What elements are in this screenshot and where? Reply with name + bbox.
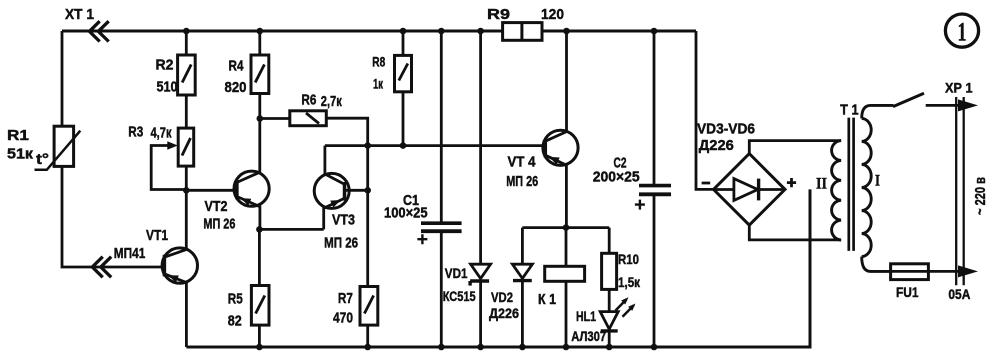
svg-text:200×25: 200×25 — [593, 169, 640, 186]
svg-text:2,7к: 2,7к — [321, 93, 342, 110]
svg-text:МП 26: МП 26 — [324, 235, 358, 252]
svg-text:05А: 05А — [948, 286, 970, 302]
svg-text:VT 4: VT 4 — [508, 154, 537, 171]
svg-text:510: 510 — [157, 79, 178, 96]
svg-text:ХР 1: ХР 1 — [945, 80, 973, 96]
svg-text:VT3: VT3 — [332, 212, 355, 229]
svg-text:R2: R2 — [156, 57, 174, 74]
svg-text:Д226: Д226 — [699, 137, 734, 154]
svg-text:VD3-VD6: VD3-VD6 — [697, 121, 755, 138]
svg-text:МП 26: МП 26 — [203, 216, 235, 233]
svg-text:VD1: VD1 — [445, 265, 468, 281]
svg-text:ХТ 1: ХТ 1 — [65, 6, 94, 23]
svg-text:Д226: Д226 — [489, 305, 519, 321]
svg-text:51к: 51к — [7, 146, 34, 163]
svg-text:R9: R9 — [487, 6, 510, 23]
svg-text:R4: R4 — [229, 58, 245, 75]
svg-text:~ 220 в: ~ 220 в — [972, 177, 989, 215]
svg-text:R8: R8 — [372, 54, 385, 70]
svg-text:VT1: VT1 — [146, 227, 168, 244]
svg-text:R10: R10 — [618, 251, 639, 267]
svg-text:МП41: МП41 — [114, 245, 146, 262]
svg-text:470: 470 — [333, 309, 353, 326]
svg-text:VD2: VD2 — [491, 289, 513, 305]
svg-text:120: 120 — [541, 6, 564, 23]
svg-text:R6: R6 — [301, 92, 316, 109]
svg-text:100×25: 100×25 — [384, 205, 428, 222]
svg-text:I: I — [875, 173, 880, 190]
svg-text:АЛ307: АЛ307 — [571, 328, 606, 344]
svg-text:1: 1 — [958, 18, 967, 47]
svg-text:t°: t° — [36, 151, 49, 168]
svg-text:К 1: К 1 — [538, 291, 556, 308]
svg-text:FU1: FU1 — [896, 284, 919, 300]
svg-text:Т 1: Т 1 — [840, 102, 859, 119]
svg-text:R3: R3 — [128, 124, 143, 141]
svg-text:II: II — [816, 176, 827, 193]
svg-text:КС515: КС515 — [443, 288, 476, 304]
svg-text:1к: 1к — [373, 76, 384, 92]
svg-text:R7: R7 — [338, 290, 353, 307]
svg-text:R1: R1 — [7, 127, 29, 144]
svg-text:82: 82 — [228, 312, 242, 329]
svg-text:820: 820 — [225, 79, 247, 96]
svg-text:МП 26: МП 26 — [506, 173, 538, 190]
svg-text:VT2: VT2 — [205, 198, 228, 215]
svg-text:HL1: HL1 — [576, 308, 596, 324]
svg-text:R5: R5 — [228, 291, 243, 308]
svg-text:4,7к: 4,7к — [151, 125, 172, 142]
svg-text:1,5к: 1,5к — [618, 274, 641, 290]
